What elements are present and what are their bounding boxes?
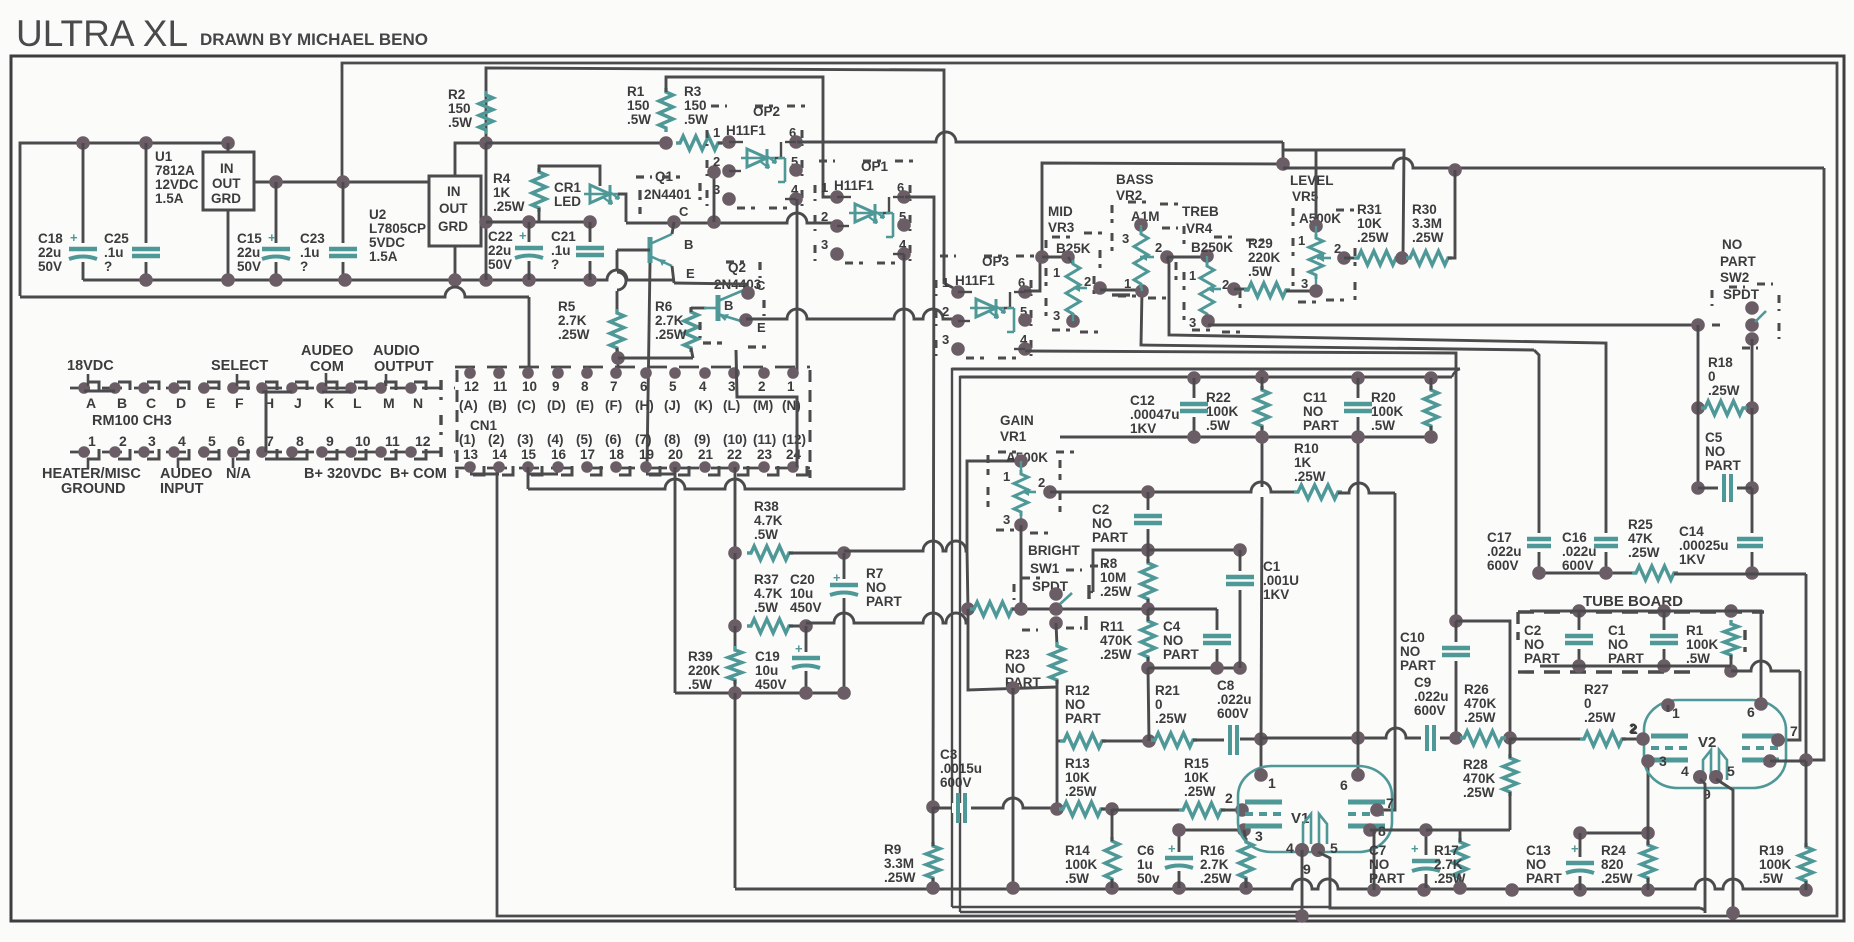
wire: CN1 separator / audio out step — [736, 350, 797, 467]
svg-text:.25W: .25W — [1294, 469, 1326, 484]
svg-text:R7: R7 — [866, 566, 883, 581]
wire: y=143 node to R1 — [486, 142, 666, 145]
pin L RM100 top row — [345, 382, 357, 394]
svg-text:50V: 50V — [237, 259, 261, 274]
wire: R7/R23 ground link y=688 — [968, 609, 1057, 690]
svg-text:1K: 1K — [493, 185, 511, 200]
svg-text:LEVEL: LEVEL — [1290, 173, 1334, 188]
wire: select link F column — [265, 390, 268, 452]
svg-text:PART: PART — [1092, 530, 1129, 545]
wire: SW2 down ladder — [1751, 339, 1754, 408]
svg-text:C: C — [756, 278, 766, 293]
node: V2 pin6 — [1754, 697, 1768, 711]
svg-text:.5W: .5W — [688, 677, 712, 692]
svg-text:450V: 450V — [755, 677, 787, 692]
node: C14 bottom on rail — [1745, 566, 1759, 580]
svg-text:PART: PART — [1524, 651, 1561, 666]
svg-text:10K: 10K — [1065, 770, 1090, 785]
wire: tone stack top bus y=163 — [1042, 163, 1283, 257]
svg-text:(3): (3) — [517, 432, 534, 447]
svg-text:R16: R16 — [1200, 843, 1225, 858]
svg-text:SW1: SW1 — [1030, 561, 1060, 576]
node: OP2 pin2 riser — [707, 215, 721, 229]
pin CN1 bottom 16 — [552, 461, 564, 473]
svg-text:B: B — [684, 237, 693, 252]
svg-text:2: 2 — [821, 209, 828, 224]
pin CN1 top 3 — [728, 367, 740, 379]
svg-text:C2: C2 — [1092, 502, 1109, 517]
svg-text:+: + — [795, 641, 803, 656]
wire: Q1 E lead — [672, 266, 674, 283]
svg-text:(8): (8) — [664, 432, 681, 447]
wire: V2 pin3 down — [1647, 761, 1650, 833]
svg-text:B: B — [117, 395, 127, 411]
svg-text:R18: R18 — [1708, 355, 1733, 370]
svg-text:100K: 100K — [1686, 637, 1719, 652]
node: SW2 throw up — [1745, 301, 1759, 315]
capacitor C17 — [1534, 533, 1544, 552]
svg-text:AUDIO: AUDIO — [373, 343, 420, 359]
svg-text:+: + — [268, 230, 276, 245]
svg-text:C4: C4 — [1163, 619, 1181, 634]
svg-text:E: E — [206, 395, 215, 411]
svg-text:0: 0 — [1708, 369, 1716, 384]
svg-text:100K: 100K — [1065, 857, 1098, 872]
node: SW1 common stub — [1049, 587, 1063, 601]
svg-text:13: 13 — [463, 447, 479, 462]
svg-text:R14: R14 — [1065, 843, 1090, 858]
svg-text:22u: 22u — [488, 243, 511, 258]
svg-text:NO: NO — [1369, 857, 1389, 872]
svg-text:220K: 220K — [688, 663, 721, 678]
capacitor C13 (NO PART) — [1579, 833, 1582, 890]
capacitor C6 — [1178, 830, 1181, 888]
svg-text:.25W: .25W — [1708, 383, 1740, 398]
preamp ground rail y=888 — [735, 879, 1806, 889]
node: R13/R15 junction — [1105, 802, 1119, 816]
svg-text:(D): (D) — [547, 398, 566, 413]
svg-text:AUDEO: AUDEO — [160, 466, 212, 482]
wire: 12V feed top y=68 — [486, 68, 959, 291]
node: R22 top — [1255, 370, 1269, 384]
svg-text:VR3: VR3 — [1048, 220, 1075, 235]
pin CN1 bottom 20 — [669, 461, 681, 473]
svg-text:R6: R6 — [655, 299, 673, 314]
pin A RM100 top row — [78, 382, 90, 394]
pin K RM100 top row — [316, 382, 328, 394]
capacitor C5 (NO PART) — [1697, 408, 1700, 488]
svg-text:1KV: 1KV — [1679, 552, 1705, 567]
svg-text:J: J — [294, 395, 302, 411]
svg-text:(11): (11) — [753, 432, 776, 447]
resistor R16 — [1239, 838, 1253, 882]
node: U2 GRD — [448, 273, 462, 287]
svg-text:.25W: .25W — [1464, 710, 1496, 725]
node: V2 pin5 — [1709, 770, 1723, 784]
svg-text:(6): (6) — [605, 432, 622, 447]
svg-text:R26: R26 — [1464, 682, 1489, 697]
svg-text:2: 2 — [1038, 475, 1045, 490]
svg-text:C13: C13 — [1526, 843, 1551, 858]
svg-text:+: + — [1168, 841, 1176, 856]
svg-text:PART: PART — [1608, 651, 1645, 666]
wire: link pins 15-16 — [528, 473, 558, 476]
node: R1 bottom — [659, 136, 673, 150]
wire: R8 row to C1 column — [1148, 549, 1240, 552]
svg-text:PART: PART — [1400, 658, 1437, 673]
svg-text:R27: R27 — [1584, 682, 1609, 697]
svg-text:B+ 320VDC: B+ 320VDC — [304, 466, 382, 482]
svg-text:C22: C22 — [488, 229, 513, 244]
svg-text:R9: R9 — [884, 842, 901, 857]
svg-text:.25W: .25W — [1357, 230, 1389, 245]
svg-text:OUTPUT: OUTPUT — [374, 359, 434, 375]
wire: rail right corner down to V2 pin8 region — [1805, 574, 1808, 760]
node: R24 top — [1641, 826, 1655, 840]
svg-text:1KV: 1KV — [1130, 421, 1156, 436]
node: R37 left — [728, 619, 742, 633]
svg-text:(9): (9) — [694, 432, 711, 447]
svg-text:PART: PART — [1065, 711, 1102, 726]
svg-text:22u: 22u — [237, 245, 260, 260]
svg-text:20: 20 — [668, 447, 683, 462]
node: C21 top — [583, 215, 597, 229]
svg-text:9: 9 — [1303, 861, 1311, 877]
wire: y=222 row (R4/C22/C21/Q1 base area) — [486, 221, 590, 224]
svg-text:C18: C18 — [38, 231, 63, 246]
wire: pin20 riser down to C19/C20 rail — [674, 467, 677, 693]
svg-text:3: 3 — [1122, 231, 1129, 246]
resistor R29 — [1234, 288, 1248, 291]
wire: R4 top loop with CR1 — [539, 166, 600, 186]
pin CN1 bottom 14 — [493, 461, 505, 473]
tube V2 — [1644, 700, 1786, 788]
svg-text:47K: 47K — [1628, 531, 1653, 546]
svg-text:22: 22 — [727, 447, 742, 462]
svg-text:5VDC: 5VDC — [369, 235, 405, 250]
svg-text:.5W: .5W — [1686, 651, 1710, 666]
resistor R17 — [1453, 838, 1467, 882]
wire: C10 top right to R28 column — [1456, 621, 1510, 738]
wire: board bottom row — [1540, 665, 1731, 668]
node: R20 top — [1424, 371, 1438, 385]
tube V1 — [1238, 766, 1392, 852]
svg-text:9: 9 — [326, 433, 334, 449]
svg-text:.1u: .1u — [551, 243, 571, 258]
CN1 dashed box edges — [439, 380, 442, 400]
svg-text:3: 3 — [1003, 512, 1010, 527]
node: V2 pin4 — [1693, 770, 1707, 784]
svg-text:NO: NO — [1705, 444, 1725, 459]
svg-text:GRD: GRD — [211, 191, 241, 206]
svg-text:NO: NO — [1163, 633, 1183, 648]
wire: R22 column down to V1 pin1 — [1261, 437, 1264, 487]
node: board R1 top — [1724, 604, 1738, 618]
node: VR3 pin1 feed — [1035, 250, 1049, 264]
svg-text:R25: R25 — [1628, 517, 1653, 532]
svg-text:R20: R20 — [1371, 390, 1396, 405]
wire: R10 out with hop over C11 column — [1338, 483, 1395, 493]
svg-text:.1u: .1u — [104, 245, 124, 260]
svg-text:B: B — [724, 298, 733, 313]
svg-text:50v: 50v — [1137, 871, 1160, 886]
wire: SW1 throw to R8 top row — [1093, 550, 1148, 592]
svg-text:L7805CP: L7805CP — [369, 221, 426, 236]
svg-text:10: 10 — [355, 433, 371, 449]
node: SW2 feed — [1691, 318, 1705, 332]
node: R2 bottom — [479, 136, 493, 150]
resistor R26 — [1460, 731, 1506, 745]
svg-text:220K: 220K — [1248, 250, 1281, 265]
svg-text:.25W: .25W — [1628, 545, 1660, 560]
svg-text:1: 1 — [713, 125, 720, 140]
svg-text:8: 8 — [581, 379, 589, 394]
svg-text:B250K: B250K — [1191, 240, 1233, 255]
svg-text:10u: 10u — [790, 586, 813, 601]
svg-text:VR1: VR1 — [1000, 429, 1027, 444]
svg-text:INPUT: INPUT — [160, 481, 204, 497]
svg-text:(K): (K) — [694, 398, 713, 413]
resistor R20 — [1424, 386, 1438, 430]
node: R8 bottom — [1141, 602, 1155, 616]
svg-text:C21: C21 — [551, 229, 576, 244]
node: board R1 bottom — [1724, 664, 1738, 678]
wire: R1 top to V2 pin6 — [1731, 611, 1761, 704]
node: V1 pin2 — [1235, 803, 1249, 817]
svg-text:7: 7 — [1790, 723, 1798, 739]
svg-text:7: 7 — [610, 379, 618, 394]
node: Q2 E — [739, 313, 753, 327]
node: C3 left — [926, 800, 940, 814]
wire: R7 node riser — [967, 551, 968, 609]
pin CN1 top 7 — [610, 367, 622, 379]
svg-text:3: 3 — [1189, 315, 1196, 330]
svg-text:A: A — [86, 395, 96, 411]
svg-text:R23: R23 — [1005, 647, 1030, 662]
wire: y=668 row — [1148, 667, 1240, 670]
svg-text:(M): (M) — [753, 398, 773, 413]
svg-text:2: 2 — [1225, 790, 1233, 806]
node: SW2 common — [1745, 318, 1759, 332]
svg-text:16: 16 — [551, 447, 567, 462]
node: U1 IN junction — [221, 136, 235, 150]
pin CN1 top 8 — [581, 367, 593, 379]
wire: R37 out over C20 to R7 riser — [806, 613, 968, 623]
svg-text:R2: R2 — [448, 87, 465, 102]
svg-text:R12: R12 — [1065, 683, 1090, 698]
svg-text:2: 2 — [942, 304, 949, 319]
pin CN1 bottom 23 — [758, 461, 770, 473]
pin CN1 bottom 22 — [728, 461, 740, 473]
capacitor C25 — [145, 143, 148, 280]
capacitor C8 — [1224, 735, 1243, 745]
wire: CN1 pin15 bus to OP1 pin4 riser — [528, 479, 904, 489]
wire: VR3 wiper to VR2 pin1 — [1100, 289, 1142, 292]
node: VR5 pin3 — [1309, 284, 1323, 298]
svg-text:10K: 10K — [1184, 770, 1209, 785]
pin 11 RM100 bottom row — [375, 446, 387, 458]
wire: R39 rail riser down to preamp ground rail — [734, 693, 737, 888]
svg-text:K: K — [324, 395, 334, 411]
pin 8 RM100 bottom row — [286, 446, 298, 458]
wire: VR2 pin1 drop to C17 line — [1141, 291, 1534, 350]
wire: cap rail y=573 — [1539, 572, 1636, 575]
wire: link 7-8 bottom — [266, 458, 295, 461]
wire: C19/C20 ground rail y=693 — [675, 692, 844, 695]
svg-text:L: L — [353, 395, 362, 411]
node: VR4 top — [1200, 249, 1214, 263]
wire: R8 bottom row y=609 to C4 column — [1148, 608, 1217, 611]
svg-text:C3: C3 — [940, 747, 958, 762]
svg-text:C10: C10 — [1400, 630, 1425, 645]
svg-text:.25W: .25W — [558, 327, 590, 342]
svg-text:C1: C1 — [1608, 623, 1626, 638]
svg-text:3: 3 — [728, 379, 736, 394]
svg-text:V2: V2 — [1698, 734, 1716, 751]
resistor R39 — [734, 626, 737, 650]
wire: R12/R21/C8 row y=741 — [1057, 740, 1064, 743]
node: VR1-3/R7 junction — [1014, 602, 1028, 616]
resistor R37 — [747, 619, 793, 633]
svg-text:1: 1 — [1298, 233, 1305, 248]
svg-text:5: 5 — [1727, 763, 1735, 779]
node: SW2 throw down — [1745, 332, 1759, 346]
node: VR3 pin3 — [1066, 314, 1080, 328]
svg-text:150: 150 — [684, 98, 707, 113]
wire: R1 top to OP1 riser y=77 — [666, 77, 837, 197]
node: V1 pin8 — [1363, 823, 1377, 837]
pin CN1 top 11 — [493, 367, 505, 379]
svg-text:.5W: .5W — [1248, 264, 1272, 279]
node: V1 pin1 — [1254, 768, 1268, 782]
svg-text:(4): (4) — [547, 432, 564, 447]
svg-text:10u: 10u — [755, 663, 778, 678]
resistor R15 — [1112, 809, 1183, 812]
svg-text:C20: C20 — [790, 572, 815, 587]
svg-text:3: 3 — [821, 237, 828, 252]
svg-text:.5W: .5W — [684, 112, 708, 127]
node: VR4 pin3 — [1201, 314, 1215, 328]
svg-text:C9: C9 — [1414, 675, 1431, 690]
svg-text:100K: 100K — [1371, 404, 1404, 419]
node: VR1 pin3 — [1014, 518, 1028, 532]
wire: V1 pin9 down and right — [1318, 852, 1700, 908]
wire: VR1 wiper row y=492 — [1050, 482, 1294, 492]
svg-text:H11F1: H11F1 — [834, 178, 874, 193]
wire: right feedback column x=1824 — [1806, 168, 1824, 760]
svg-text:1: 1 — [942, 275, 949, 290]
svg-text:.022u: .022u — [1562, 544, 1597, 559]
wire: V2 pin9 riser — [1716, 779, 1733, 913]
svg-text:BASS: BASS — [1116, 172, 1154, 187]
svg-text:R3: R3 — [684, 84, 702, 99]
wire: C4 column — [1216, 609, 1219, 668]
svg-text:C14: C14 — [1679, 524, 1704, 539]
svg-text:B+ COM: B+ COM — [390, 466, 447, 482]
svg-text:M: M — [383, 395, 395, 411]
capacitor C7 (NO PART) — [1425, 830, 1428, 888]
svg-text:GROUND: GROUND — [61, 481, 125, 497]
svg-text:4.7K: 4.7K — [754, 586, 783, 601]
wire: R28 bottom to C7 row — [1460, 829, 1510, 832]
svg-text:R29: R29 — [1248, 236, 1273, 251]
node: C11 top — [1351, 371, 1365, 385]
svg-text:R13: R13 — [1065, 756, 1090, 771]
wire: pin9 y=908 line join — [1700, 908, 1705, 910]
svg-text:NO: NO — [1524, 637, 1544, 652]
svg-text:+: + — [1411, 841, 1419, 856]
wire: VR1 pin3 down to R7 row — [1020, 525, 1023, 609]
svg-text:1: 1 — [787, 379, 795, 394]
resistor R21 — [1151, 733, 1197, 747]
diode CR1 LED — [590, 185, 610, 203]
pin CN1 top 12 — [464, 367, 476, 379]
wire: VR2 wiper to VR4 top — [1167, 256, 1207, 259]
svg-text:.022u: .022u — [1414, 689, 1449, 704]
svg-text:NO: NO — [1005, 661, 1025, 676]
svg-text:5: 5 — [669, 379, 677, 394]
regulator U1 7812A — [203, 152, 254, 210]
svg-text:.5W: .5W — [627, 112, 651, 127]
svg-text:HEATER/MISC: HEATER/MISC — [42, 466, 141, 482]
svg-text:600V: 600V — [1414, 703, 1446, 718]
svg-text:.25W: .25W — [1601, 871, 1633, 886]
svg-text:.25W: .25W — [1100, 647, 1132, 662]
node: V2 pin7 — [1771, 733, 1785, 747]
svg-text:21: 21 — [698, 447, 714, 462]
svg-text:470K: 470K — [1464, 696, 1497, 711]
node: VR1 top — [1014, 454, 1028, 468]
svg-text:(12): (12) — [782, 432, 806, 447]
svg-text:.25W: .25W — [1065, 784, 1097, 799]
svg-text:1.5A: 1.5A — [369, 249, 398, 264]
box: GAIN section double border — [952, 369, 1460, 907]
wire: OP2 pin2 riser — [713, 172, 716, 222]
resistor R10 — [1294, 485, 1342, 499]
capacitor C3 — [952, 803, 971, 813]
svg-text:1: 1 — [821, 180, 828, 195]
svg-text:ULTRA XL: ULTRA XL — [16, 13, 188, 54]
svg-text:100K: 100K — [1759, 857, 1792, 872]
pin 12 RM100 bottom row — [405, 446, 417, 458]
svg-text:C: C — [146, 395, 156, 411]
node: loop/C23 top — [336, 175, 350, 189]
svg-text:3: 3 — [148, 433, 156, 449]
svg-text:PART: PART — [1163, 647, 1200, 662]
svg-text:(E): (E) — [576, 398, 594, 413]
svg-text:2N4401: 2N4401 — [644, 187, 692, 202]
svg-text:50V: 50V — [488, 257, 512, 272]
svg-text:R8: R8 — [1100, 556, 1118, 571]
svg-text:R1: R1 — [1686, 623, 1704, 638]
regulator U2 L7805CP — [429, 176, 481, 246]
wire: C17 column — [1534, 350, 1539, 573]
pin 2 RM100 bottom row — [109, 446, 121, 458]
wire: VR2 wiper branch down to C16 line — [1167, 257, 1606, 573]
svg-text:(L): (L) — [723, 398, 740, 413]
pin 9 RM100 bottom row — [316, 446, 328, 458]
svg-text:R22: R22 — [1206, 390, 1231, 405]
wire: double bus y=369/377 — [952, 368, 1460, 371]
svg-text:H11F1: H11F1 — [955, 273, 995, 288]
node: board C1 top — [1657, 604, 1671, 618]
svg-text:5: 5 — [208, 433, 216, 449]
pin CN1 bottom 15 — [522, 461, 534, 473]
svg-text:600V: 600V — [1217, 706, 1249, 721]
capacitor C20 — [843, 553, 846, 693]
svg-text:.001U: .001U — [1263, 573, 1299, 588]
svg-text:5: 5 — [1330, 840, 1338, 856]
